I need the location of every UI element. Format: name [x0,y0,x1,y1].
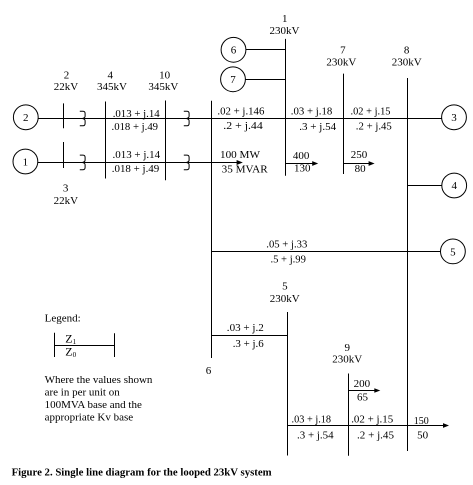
svg-text:.02 + j.15: .02 + j.15 [351,106,391,118]
svg-text:.03 + j.18: .03 + j.18 [291,106,333,118]
load arrow 100MW [237,160,243,165]
svg-text:.018 + j.49: .018 + j.49 [112,121,159,133]
svg-text:3: 3 [63,183,69,195]
wire feeder line 2 (bus1 circle to 100MW load arrow) [38,162,240,164]
svg-text:2: 2 [64,69,70,81]
wire bottom feeder (bus5 - bus9 - bus8 - load) [288,425,446,427]
svg-text:.2 + j.44: .2 + j.44 [223,120,263,132]
svg-text:.2 + j.45: .2 + j.45 [357,430,394,442]
svg-text:.5 + j.99: .5 + j.99 [270,253,306,265]
transformer T1 winding feeder1 [80,111,85,126]
bus 1 [285,39,287,176]
bus 10 [165,101,167,181]
svg-text:8: 8 [404,45,410,57]
transformer T2 winding feeder1 [184,111,189,126]
svg-text:400: 400 [293,150,310,162]
svg-text:7: 7 [340,45,346,57]
svg-text:.013 + j.14: .013 + j.14 [113,108,160,120]
svg-text:2: 2 [23,112,29,124]
svg-text:65: 65 [357,392,369,404]
legend left bar [54,333,56,357]
svg-text:Figure 2. Single line diagram: Figure 2. Single line diagram for the lo… [12,466,272,478]
svg-text:80: 80 [355,163,367,175]
svg-text:.02 + j.146: .02 + j.146 [217,105,264,117]
svg-text:130: 130 [294,163,311,175]
wire branch 400/130 from bus 1 [286,163,316,165]
svg-text:.02 + j.15: .02 + j.15 [351,413,393,425]
bus 2 [63,103,65,128]
bus 7 [343,74,345,174]
svg-text:appropriate Kv base: appropriate Kv base [45,412,134,424]
svg-text:6: 6 [206,365,212,377]
bus 3 [63,142,65,168]
wire line .05+j.33 (node6 to circle 5) [212,251,441,253]
transformer T1 winding feeder2 [80,155,85,170]
svg-text:are in per unit on: are in per unit on [45,386,121,398]
svg-text:345kV: 345kV [97,81,127,93]
svg-text:.05 + j.33: .05 + j.33 [266,238,307,250]
svg-text:230kV: 230kV [332,354,362,366]
svg-text:6: 6 [231,45,237,57]
svg-text:230kV: 230kV [270,293,300,305]
load arrow 250/80 [369,161,375,166]
svg-text:.03 + j.2: .03 + j.2 [227,322,264,334]
svg-text:150: 150 [414,415,429,427]
svg-text:9: 9 [345,342,351,354]
svg-text:1: 1 [282,13,288,25]
svg-text:1: 1 [23,156,29,168]
bus 9 [348,374,350,456]
svg-text:50: 50 [417,429,429,441]
wire generator 7 to bus 1 [246,79,286,81]
wire feeder line 1 (bus2 to bus3 circle) [38,118,442,120]
generator circle 6 [221,37,246,62]
svg-text:100 MW: 100 MW [220,149,261,161]
svg-text:100MVA base and the: 100MVA base and the [45,399,142,411]
bus 5 [287,312,289,456]
svg-text:.018 + j.49: .018 + j.49 [112,163,160,175]
svg-text:230kV: 230kV [392,56,422,68]
svg-text:5: 5 [282,281,288,293]
wire bus 8 to circle 4 [408,185,442,187]
svg-text:230kV: 230kV [326,56,356,68]
svg-text:22kV: 22kV [54,195,79,207]
svg-text:230kV: 230kV [270,25,300,37]
svg-text:22kV: 22kV [54,81,79,93]
node circle 5 [441,239,466,264]
svg-text:3: 3 [451,112,457,124]
generator circle 7 [221,67,246,92]
legend right bar [114,333,116,357]
generator circle 1 [13,149,38,174]
svg-text:.013 + j.14: .013 + j.14 [113,149,161,161]
svg-text:Legend:: Legend: [45,312,81,324]
svg-text:.3 + j.54: .3 + j.54 [297,430,334,442]
svg-text:200: 200 [354,378,371,390]
wire line .03+j.2 (node6 to bus 5) [212,335,288,337]
generator circle 2 [13,105,38,130]
load arrow 400/130 [312,161,318,166]
wire branch 200/65 from bus 9 [349,390,378,392]
svg-text:.3 + j.54: .3 + j.54 [299,121,336,133]
node circle 3 [442,105,467,130]
svg-text:.2 + j.45: .2 + j.45 [356,120,392,132]
svg-text:5: 5 [450,246,456,258]
bus 8 [407,78,409,451]
svg-text:35 MVAR: 35 MVAR [222,163,269,175]
wire generator 6 to bus 1 [246,49,286,51]
svg-text:10: 10 [159,69,171,81]
node 6 riser [211,101,213,358]
transformer T2 winding feeder2 [184,155,189,170]
svg-text:4: 4 [107,69,113,81]
legend wire [55,345,115,347]
load arrow 150/50 [443,423,449,428]
svg-text:345kV: 345kV [148,81,178,93]
load arrow 200/65 [374,388,380,393]
bus 4 [105,102,107,179]
svg-text:Where the values shown: Where the values shown [45,374,153,386]
wire branch 250/80 from bus 7 [344,163,372,165]
svg-text:250: 250 [351,149,368,161]
svg-text:7: 7 [230,74,236,86]
svg-text:.3 + j.6: .3 + j.6 [233,338,264,350]
svg-text:.03 + j.18: .03 + j.18 [292,413,332,425]
svg-text:4: 4 [451,180,457,192]
node circle 4 [442,173,467,198]
